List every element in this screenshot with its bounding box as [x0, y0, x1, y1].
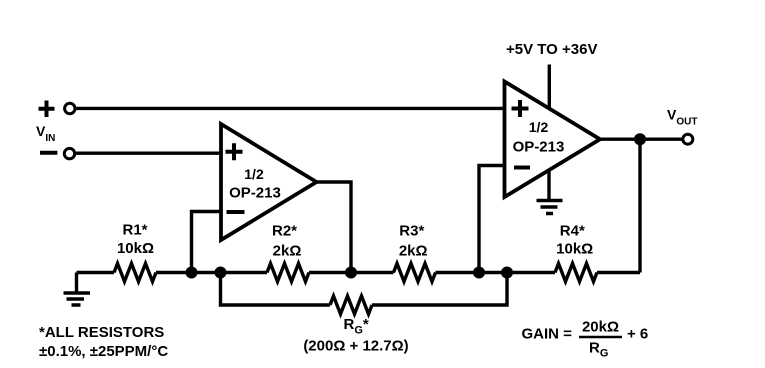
node N4	[473, 267, 485, 279]
svg-text:10kΩ: 10kΩ	[117, 240, 154, 257]
wire U1 inverting input	[192, 212, 222, 273]
wire top rail to U2 + input	[77, 107, 505, 110]
formula GAIN	[522, 319, 649, 360]
input terminal T2 (-)	[64, 148, 74, 158]
node N5	[501, 267, 513, 279]
svg-text:2kΩ: 2kΩ	[273, 243, 302, 260]
terminal plus sign	[39, 101, 55, 118]
svg-text:R4*: R4*	[560, 223, 585, 240]
resistor R3	[394, 223, 436, 282]
node N3 (U1 output junction)	[345, 267, 357, 279]
svg-text:OP-213: OP-213	[513, 139, 565, 156]
svg-text:OP-213: OP-213	[229, 185, 281, 202]
svg-text:2kΩ: 2kΩ	[399, 243, 428, 260]
resistor RG	[303, 296, 408, 355]
svg-text:*ALL RESISTORS: *ALL RESISTORS	[39, 324, 164, 341]
svg-text:GAIN =: GAIN =	[522, 326, 573, 343]
resistor R2	[267, 223, 309, 282]
svg-text:RG*: RG*	[344, 316, 369, 337]
output terminal	[683, 134, 693, 144]
wire U1 output	[317, 182, 352, 273]
wire U2 inverting input	[479, 166, 505, 273]
svg-text:R2*: R2*	[272, 223, 297, 240]
svg-text:10kΩ: 10kΩ	[556, 241, 593, 258]
wire supply	[548, 65, 551, 110]
svg-text:1/2: 1/2	[244, 166, 264, 182]
svg-text:+5V TO +36V: +5V TO +36V	[506, 41, 597, 58]
terminal minus sign	[40, 151, 57, 155]
svg-text:VOUT: VOUT	[667, 107, 697, 128]
wire bus segment 4	[436, 271, 556, 275]
wire U2 output	[600, 137, 682, 140]
node N1	[186, 267, 198, 279]
svg-text:1/2: 1/2	[529, 119, 549, 135]
op-amp U2	[505, 82, 601, 198]
wire bus segment 2	[156, 271, 267, 275]
wire RG loop right	[372, 273, 507, 306]
ground GND1	[64, 273, 91, 306]
wire bus segment 1	[77, 271, 115, 275]
resistor R4	[555, 223, 597, 282]
svg-text:R3*: R3*	[399, 223, 424, 240]
op-amp U1	[221, 124, 317, 240]
wire RG loop left	[221, 273, 331, 306]
svg-text:+ 6: + 6	[627, 326, 648, 343]
ground GND2	[537, 170, 563, 214]
wire feedback vertical from output node	[638, 139, 641, 272]
wire bus segment 3	[309, 271, 394, 275]
svg-text:(200Ω + 12.7Ω): (200Ω + 12.7Ω)	[303, 338, 408, 355]
svg-text:±0.1%, ±25PPM/°C: ±0.1%, ±25PPM/°C	[39, 343, 168, 360]
wire bus segment 5	[597, 271, 640, 275]
node N2	[215, 267, 227, 279]
svg-text:VIN: VIN	[36, 123, 55, 144]
note all resistors	[39, 324, 168, 360]
svg-text:R1*: R1*	[122, 222, 147, 239]
svg-text:RG: RG	[589, 340, 608, 360]
svg-text:20kΩ: 20kΩ	[582, 319, 619, 336]
input terminal T1 (+)	[65, 103, 75, 113]
wire lower input to U1 + input	[76, 151, 221, 154]
resistor R1	[114, 222, 156, 282]
node N6 output junction	[634, 133, 646, 145]
